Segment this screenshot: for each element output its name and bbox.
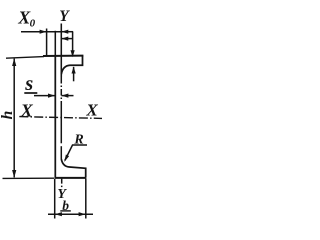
label R (inner radius): [73, 133, 83, 148]
label Y (top axis label): [59, 8, 70, 25]
flange thickness bent leader (left arrow at axis, elbow, down arrow onto flange): [61, 38, 72, 40]
label Y (bottom axis label): [57, 187, 67, 202]
X-X centroid axis (horizontal dash-dot): [19, 117, 102, 119]
svg-text:b: b: [62, 198, 69, 213]
extension tick at x=46.5: [46, 29, 48, 57]
label b: [62, 198, 69, 213]
label X (right, above X-X axis): [85, 100, 98, 119]
flange thickness up arrow (tip at flange inner face): [73, 67, 75, 81]
section contour: web back (left) face: [54, 55, 56, 178]
section contour: bottom inner radius + bottom flange inner face + tip radius + tip edge: [61, 159, 85, 178]
h dimension line with arrows: [13, 59, 15, 178]
web inner contour solid (low, small gap above): [60, 146, 62, 159]
web inner contour solid (mid): [60, 103, 62, 143]
b dimension line: [48, 213, 93, 215]
Y axis lower stub below section: [61, 179, 63, 188]
svg-text:Y: Y: [59, 8, 70, 25]
label s (web thickness): [24, 73, 33, 95]
label X (left, on X-X axis): [20, 100, 34, 120]
svg-text:h: h: [0, 111, 16, 120]
b arrowhead right (pointing right at tick): [79, 212, 86, 216]
svg-text:X: X: [85, 100, 98, 119]
web back face top extension line (X0 dimension): [54, 31, 56, 56]
R leader with arrow to inner corner radius: [65, 145, 87, 161]
Y axis dash-dot segment through s-dimension zone: [60, 77, 62, 103]
top extension line (h dimension, top): [6, 57, 44, 59]
b dimension right extension line: [85, 178, 87, 218]
arrowhead X0 right-pointing at tick: [40, 30, 47, 34]
dimension line X0: [21, 31, 61, 33]
section contour: top flange tip edge + tip radius + inner face + top inner radius: [61, 56, 82, 75]
arrow pointing left at Y axis (X0 dimension partner): [61, 31, 73, 33]
s dimension right arrow (tip at web inner line): [61, 95, 73, 97]
s dimension left arrow (tip at web back): [34, 95, 55, 97]
svg-text:s: s: [24, 73, 33, 95]
b label underline: [60, 210, 71, 212]
section contour: bottom face: [55, 177, 86, 179]
svg-text:0: 0: [30, 17, 36, 29]
label h (rotated): [0, 111, 16, 120]
label X0 (centroid distance): [17, 8, 35, 30]
section contour: top flange top face: [43, 55, 83, 57]
b arrowhead left (pointing left at tick): [55, 212, 62, 216]
s underline (thick tail of left arrow): [24, 92, 37, 94]
Y axis upper solid segment (above section, doubles as X0 extension): [60, 24, 62, 78]
b dimension left extension line: [54, 179, 56, 219]
bottom extension line (h dimension, bottom): [3, 177, 55, 179]
channel profile cross-section drawing: [0, 0, 114, 234]
